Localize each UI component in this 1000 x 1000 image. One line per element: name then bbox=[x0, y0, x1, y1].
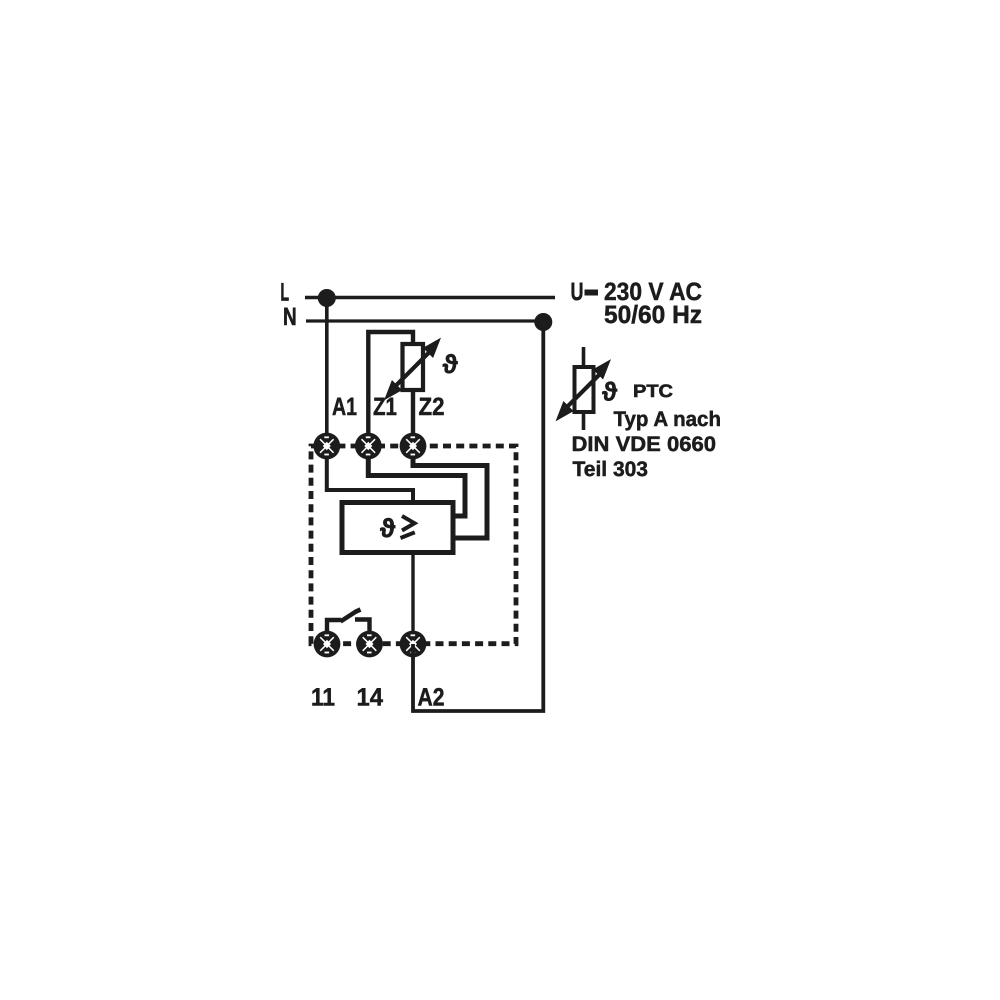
terminal Z2 bbox=[400, 433, 427, 460]
svg-text:Typ A nach: Typ A nach bbox=[614, 408, 722, 431]
wire relay coil to terminal A2 bbox=[411, 552, 414, 644]
wire thermistor bottom to terminal Z2 bbox=[411, 390, 415, 446]
wire N supply line bbox=[306, 319, 543, 322]
PTC sensor lead top bbox=[582, 347, 586, 369]
PTC sensor lead bottom bbox=[582, 411, 586, 430]
wire L supply line bbox=[305, 296, 555, 299]
svg-text:Teil 303: Teil 303 bbox=[573, 458, 649, 481]
switch contact blade bbox=[341, 610, 361, 622]
svg-text:A1: A1 bbox=[332, 393, 357, 421]
wire L dot down to terminal A1 bbox=[325, 298, 329, 446]
svg-text:PTC: PTC bbox=[633, 381, 673, 401]
svg-text:50/60 Hz: 50/60 Hz bbox=[604, 301, 702, 329]
switch contact 14 fixed lead bbox=[355, 620, 370, 633]
switch contact 11 fixed lead bbox=[327, 620, 341, 632]
wire A2 return to N bbox=[413, 322, 543, 711]
terminal 14 bbox=[356, 631, 383, 658]
svg-text:Z1: Z1 bbox=[373, 393, 397, 421]
svg-text:U: U bbox=[571, 278, 584, 306]
terminal Z1 bbox=[355, 433, 382, 460]
svg-text:ϑ: ϑ bbox=[380, 513, 396, 543]
thermistor RT1 arrowhead lower-left bbox=[378, 380, 402, 404]
wire Z1 to relay coil right side upper bbox=[368, 446, 465, 516]
svg-text:11: 11 bbox=[311, 684, 335, 712]
terminal A2 bbox=[400, 631, 427, 658]
thermistor RT1 body bbox=[403, 344, 424, 390]
PTC sensor arrowhead lower-left bbox=[549, 401, 573, 425]
wire Z2 to relay coil right side lower bbox=[413, 446, 487, 538]
svg-text:14: 14 bbox=[357, 684, 384, 712]
PTC sensor arrow shaft bbox=[564, 372, 603, 411]
relay coil greater-than symbol bbox=[402, 516, 415, 531]
svg-text:DIN VDE 0660: DIN VDE 0660 bbox=[572, 433, 717, 456]
dashed relay enclosure box bbox=[311, 446, 516, 644]
thermistor RT1 diagonal arrow shaft bbox=[393, 349, 433, 389]
PTC sensor body bbox=[575, 367, 594, 412]
svg-text:ϑ: ϑ bbox=[602, 377, 618, 407]
node junction dot on L bbox=[318, 289, 336, 307]
thermistor RT1 arrowhead upper-right bbox=[423, 334, 447, 358]
svg-text:A2: A2 bbox=[418, 684, 445, 712]
label U= 230 V AC bbox=[571, 278, 703, 306]
wire A1 to relay coil top bbox=[327, 446, 413, 503]
svg-text:N: N bbox=[283, 303, 297, 331]
PTC sensor arrowhead upper-right bbox=[593, 355, 617, 379]
svg-text:Z2: Z2 bbox=[419, 393, 445, 421]
node junction dot on N bbox=[534, 313, 552, 331]
terminal A1 bbox=[313, 433, 340, 460]
svg-text:ϑ: ϑ bbox=[443, 349, 459, 379]
wire Z1 loop up and over to thermistor top bbox=[368, 332, 413, 446]
relay coil K1 body bbox=[342, 503, 453, 553]
terminal 11 bbox=[314, 631, 341, 658]
